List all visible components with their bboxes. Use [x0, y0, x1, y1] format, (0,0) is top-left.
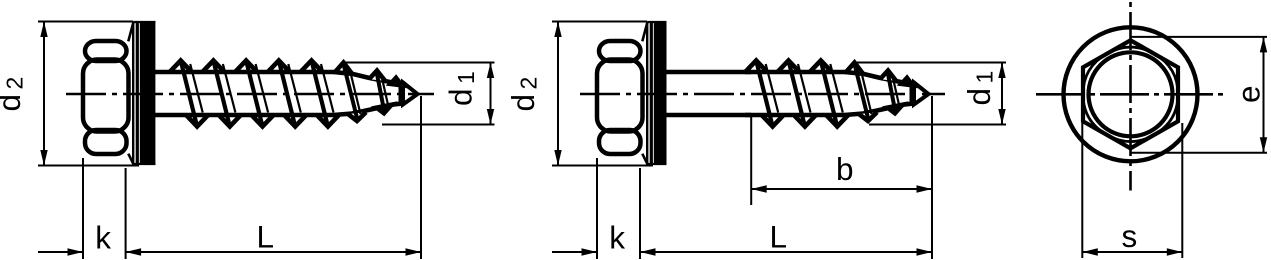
view2 d1 top extension line	[854, 62, 1006, 64]
view3 s dimension line	[1082, 251, 1182, 253]
view1 d2 bottom extension line	[38, 165, 139, 167]
view3 s right extension line	[1181, 123, 1183, 258]
view3 corner chamfer arcs	[1107, 47, 1154, 54]
view2 plain shank bottom line	[666, 113, 752, 118]
view3 vertical centerline	[1129, 2, 1132, 191]
view1 hex head top facet	[85, 41, 127, 61]
view1 tip point	[403, 83, 418, 105]
view1 thread root bottom line	[154, 113, 334, 118]
view1 sealing washer left edge	[136, 21, 139, 165]
view2 k right extension line	[639, 168, 641, 259]
svg-text:d2: d2	[0, 77, 28, 112]
view2 flange cone right edge	[646, 22, 648, 164]
view2 sealing washer bottom edge	[647, 163, 666, 165]
view2 flange cone bottom edge	[642, 154, 647, 165]
view2 thread root bottom line	[745, 113, 845, 118]
view2 k left extension line	[596, 158, 598, 259]
view1 d2 label	[0, 77, 28, 112]
svg-text:b: b	[836, 151, 854, 187]
view3 horizontal centerline	[1036, 93, 1225, 96]
view1 thread turns	[170, 61, 192, 73]
view2 b left extension line	[750, 116, 752, 205]
view2 d2 bottom extension line	[552, 165, 653, 167]
view1 L right extension line	[420, 96, 422, 259]
view2 tip cone bottom taper	[845, 104, 915, 116]
view2 sealing washer top edge	[647, 21, 666, 23]
view3 e bottom extension line	[1131, 152, 1268, 154]
view2 hex head bottom facet	[599, 130, 641, 154]
view1 hex head bottom facet	[85, 130, 127, 154]
view2 sealing washer body	[654, 21, 667, 165]
view1 d1 dimension line	[490, 63, 492, 125]
svg-text:L: L	[257, 219, 275, 255]
view2 thread root top line	[745, 70, 845, 75]
view2 d1 dimension line	[1001, 63, 1003, 125]
view2 d1 label	[961, 71, 998, 106]
svg-text:d2: d2	[505, 77, 542, 112]
svg-text:d1: d1	[443, 71, 480, 106]
view2 L right extension line	[931, 96, 933, 259]
view3 e top extension line	[1131, 36, 1268, 38]
view3 washer outer circle	[1064, 27, 1198, 161]
view2 tip point	[914, 83, 929, 105]
view1 sealing washer top edge	[133, 21, 155, 23]
view1 k right extension line	[125, 168, 127, 259]
view1 hex head middle facet	[83, 60, 129, 132]
view2 hex head top facet	[599, 41, 641, 61]
view3 e label	[1231, 85, 1267, 103]
view2 L dimension line	[640, 251, 932, 253]
view3 e dimension line	[1263, 37, 1265, 153]
view2 d2 dimension line	[557, 22, 559, 166]
view2 b dimension line	[751, 188, 932, 190]
svg-text:d1: d1	[961, 71, 998, 106]
view2 k leader line	[552, 251, 596, 253]
view1 d1 top extension line	[343, 62, 495, 64]
view1 k left extension line	[82, 158, 84, 259]
view3 chamfer circle	[1089, 52, 1173, 136]
view2 tip threads	[846, 63, 864, 74]
svg-text:L: L	[770, 219, 788, 255]
view1 d2 top extension line	[38, 21, 133, 23]
view2 centerline	[580, 93, 945, 96]
svg-text:k: k	[95, 220, 111, 256]
view1 sealing washer bottom edge	[133, 163, 155, 165]
view1 d2 dimension line	[43, 22, 45, 166]
view1 tip threads	[335, 63, 353, 74]
view2 hex head middle facet	[597, 60, 643, 132]
svg-text:e: e	[1231, 85, 1267, 103]
view2 tip cone top taper	[845, 72, 915, 84]
view1 d1 label	[443, 71, 480, 106]
view1 flange cone top edge	[128, 22, 133, 42]
view2 d1 bottom extension line	[869, 124, 1006, 126]
view2 d2 label	[505, 77, 542, 112]
view1 tip cone top taper	[334, 72, 404, 84]
view1 tip cone bottom taper	[334, 104, 404, 116]
view2 thread turns	[745, 61, 767, 73]
view1 sealing washer body	[140, 21, 156, 165]
view1 thread root top line	[154, 70, 334, 75]
view2 sealing washer left edge	[650, 21, 653, 165]
svg-text:k: k	[609, 220, 625, 256]
view2 d2 top extension line	[552, 21, 647, 23]
view1 flange cone bottom edge	[128, 154, 133, 165]
view3 s left extension line	[1081, 123, 1083, 258]
svg-text:s: s	[1122, 218, 1138, 254]
view2 flange cone top edge	[642, 22, 647, 42]
view1 flange cone right edge	[132, 22, 134, 164]
view1 k leader line	[38, 251, 82, 253]
view3 hexagon	[1083, 40, 1178, 148]
view1 L dimension line	[126, 251, 421, 253]
view2 plain shank top line	[666, 70, 752, 75]
view1 d1 bottom extension line	[382, 124, 495, 126]
view1 centerline	[66, 93, 434, 96]
